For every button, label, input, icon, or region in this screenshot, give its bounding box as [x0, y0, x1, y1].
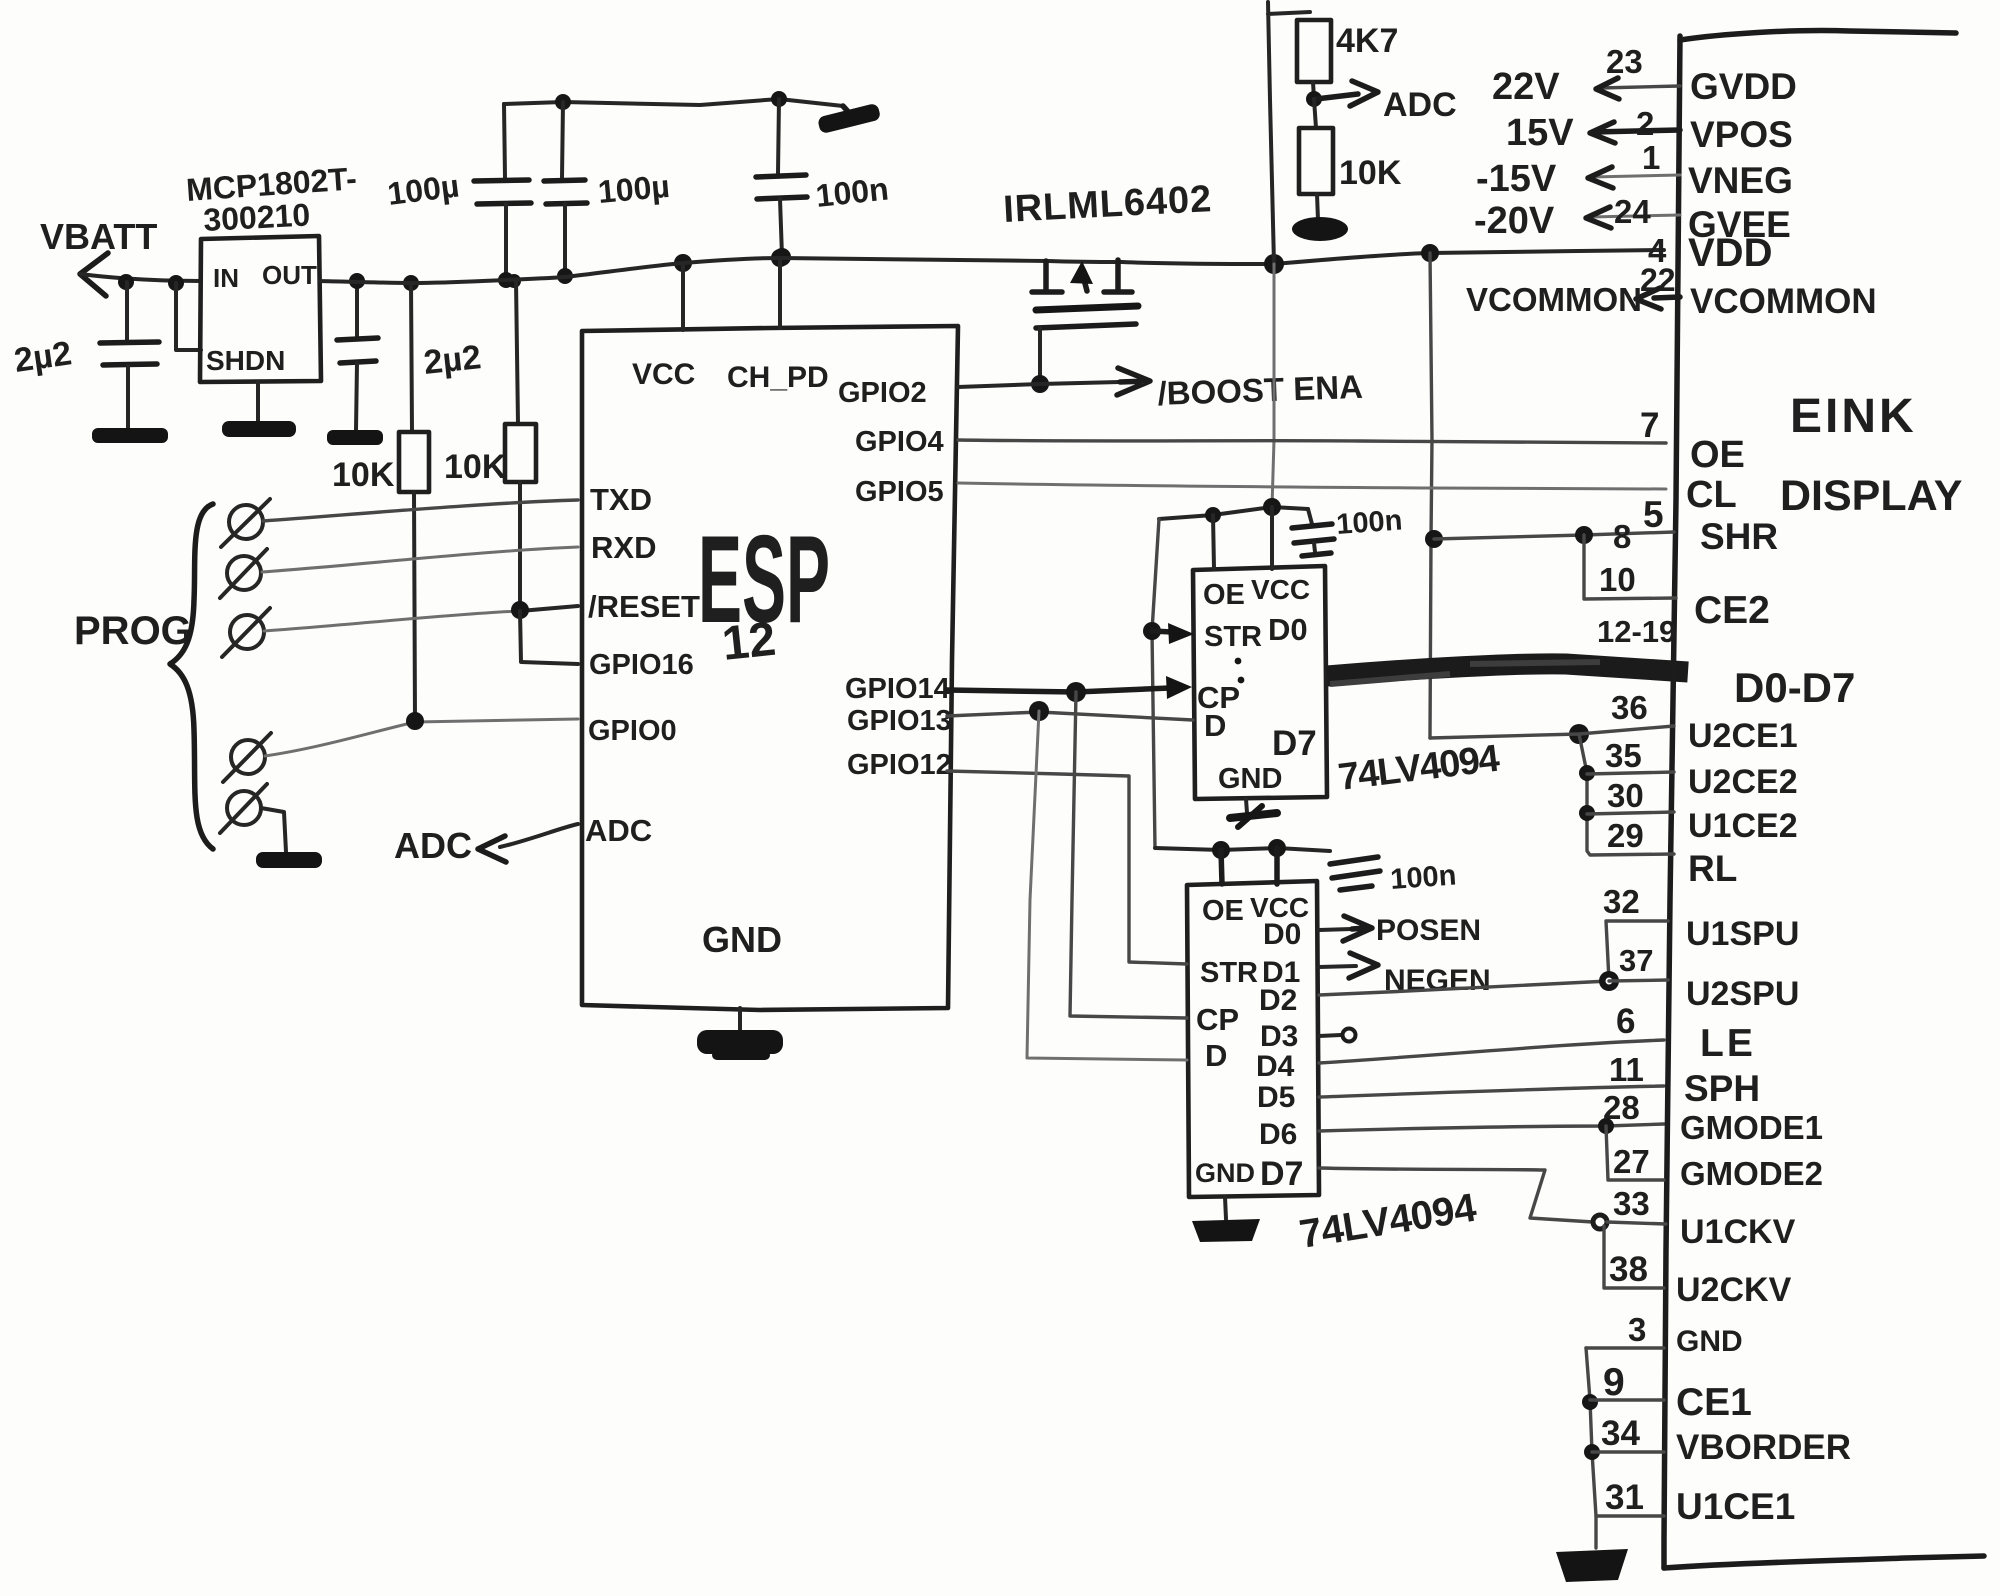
svg-text:2µ2: 2µ2	[12, 334, 74, 380]
svg-text:U2CE2: U2CE2	[1688, 763, 1798, 801]
wire VCC rail (regulator OUT to VDD pin)	[320, 250, 1664, 283]
svg-text:IN: IN	[213, 263, 239, 293]
wire D branch (U4)	[1027, 711, 1187, 1060]
svg-text:GPIO2: GPIO2	[838, 377, 927, 409]
svg-text:GPIO13: GPIO13	[847, 705, 952, 737]
svg-text:8: 8	[1613, 518, 1631, 555]
wire CP branch (U4)	[1070, 692, 1187, 1018]
connector J1 PROG brace	[170, 504, 213, 849]
svg-text:D0: D0	[1268, 612, 1308, 647]
svg-text:300210: 300210	[202, 196, 311, 238]
wire VBATT arrow to regulator IN	[80, 253, 200, 296]
wire D4 to LE	[1319, 1040, 1664, 1063]
svg-text:D7: D7	[1260, 1155, 1303, 1193]
svg-text:30: 30	[1607, 777, 1644, 814]
svg-text:VCOMMON: VCOMMON	[1466, 281, 1642, 318]
svg-text:OE: OE	[1203, 579, 1245, 611]
svg-text:D6: D6	[1259, 1118, 1297, 1151]
svg-text:/BOOST ENA: /BOOST ENA	[1157, 368, 1364, 412]
pin 38 U2CKV chain	[1604, 1226, 1792, 1309]
pin 28 GMODE1	[1598, 1089, 1823, 1146]
svg-text:GMODE2: GMODE2	[1680, 1155, 1823, 1192]
pin 34 VBORDER	[1584, 1414, 1851, 1467]
resistor R1 10K (GPIO0 pullup)	[332, 275, 429, 722]
svg-text:VCC: VCC	[1251, 574, 1310, 605]
capacitor C4 100u	[544, 94, 671, 284]
pad pin5 PROG GND	[220, 784, 267, 833]
svg-text:VCOMMON: VCOMMON	[1690, 282, 1877, 321]
svg-text:GND: GND	[702, 919, 782, 960]
wire D7 to U1CKV	[1319, 1168, 1593, 1222]
node junction C2	[349, 273, 365, 289]
svg-text:36: 36	[1611, 689, 1648, 726]
svg-text:100n: 100n	[1335, 504, 1403, 541]
svg-text:STR: STR	[1204, 621, 1262, 653]
svg-text:GVDD: GVDD	[1690, 66, 1797, 107]
ground (U4)	[1192, 1197, 1260, 1242]
capacitor C7 100n (U4)	[1330, 857, 1457, 896]
pad pin1 PROG TXD	[221, 499, 270, 547]
pin 37 U2SPU	[1599, 943, 1799, 1013]
wire RESET to GPIO16 jog	[520, 611, 578, 664]
svg-text:D7: D7	[1272, 724, 1317, 763]
wire VCC stub	[674, 254, 692, 330]
pin 4 VDD	[1648, 231, 1772, 275]
svg-text:U2CKV: U2CKV	[1676, 1271, 1792, 1309]
svg-text:OUT: OUT	[262, 260, 317, 290]
resistor R2 10K (reset pullup)	[444, 274, 536, 610]
wire CE chain vertical	[1579, 734, 1674, 855]
IC U4 74LV4094 box	[1187, 881, 1319, 1197]
svg-text:32: 32	[1603, 883, 1640, 920]
svg-text:100µ: 100µ	[596, 168, 671, 210]
svg-text:CH_PD: CH_PD	[727, 361, 829, 394]
svg-text:31: 31	[1605, 1478, 1644, 1517]
pin 6 LE	[1616, 1002, 1756, 1065]
svg-text:STR: STR	[1200, 957, 1258, 989]
svg-text:12-19: 12-19	[1597, 614, 1676, 649]
pin labels U3 right	[1235, 574, 1317, 763]
wire Q1 gate to GPIO2	[1038, 328, 1042, 384]
svg-text:VDD: VDD	[1688, 231, 1772, 275]
transistor Q1 gate plate	[1036, 324, 1136, 328]
svg-text:11: 11	[1609, 1051, 1644, 1088]
ground (C1)	[92, 428, 168, 443]
ground (U3)	[1230, 799, 1277, 827]
pin 23 GVDD with 22V arrow	[1492, 43, 1797, 108]
svg-text:VBORDER: VBORDER	[1676, 1428, 1851, 1467]
svg-text:2µ2: 2µ2	[422, 338, 483, 382]
wire D5 to SPH	[1319, 1086, 1664, 1097]
ground (regulator)	[222, 382, 296, 437]
svg-text:27: 27	[1613, 1143, 1650, 1180]
svg-text:10: 10	[1599, 561, 1636, 598]
svg-text:38: 38	[1609, 1250, 1648, 1289]
part name EINK DISPLAY	[1780, 390, 1962, 520]
svg-text:GMODE1: GMODE1	[1680, 1109, 1823, 1146]
svg-text:CE1: CE1	[1676, 1381, 1752, 1424]
transistor Q1 source stub	[1032, 261, 1062, 292]
svg-text:VCC: VCC	[632, 358, 695, 391]
svg-text:35: 35	[1605, 737, 1642, 774]
svg-text:D3: D3	[1260, 1020, 1298, 1053]
wire PROG GND pad to ground	[261, 808, 286, 852]
ground (C2)	[327, 430, 383, 445]
wire VDD branch to SHR/CE nets	[1421, 244, 1439, 738]
wire top bypass rail	[504, 99, 843, 106]
pin 2 VPOS with 15V arrow	[1506, 105, 1793, 155]
pin 9 CE1	[1582, 1361, 1752, 1424]
wire U3 VCC stub	[1270, 507, 1274, 569]
svg-text:VNEG: VNEG	[1688, 160, 1793, 201]
svg-text:28: 28	[1603, 1089, 1640, 1126]
pin 3 GND	[1586, 1311, 1743, 1358]
capacitor C3 100u	[385, 104, 531, 288]
svg-text:GPIO12: GPIO12	[847, 749, 952, 781]
transistor Q1 channel bar	[1036, 306, 1138, 310]
wire RXD net	[262, 547, 578, 572]
svg-text:D5: D5	[1257, 1081, 1295, 1114]
wire D2 to U2SPU	[1319, 981, 1609, 995]
svg-text:RL: RL	[1688, 848, 1737, 889]
pin 7 OE	[1640, 406, 1745, 476]
svg-text:6: 6	[1616, 1002, 1635, 1041]
svg-text:VPOS: VPOS	[1690, 114, 1793, 155]
bus D0-D7 (U3 to display)	[1327, 662, 1688, 684]
svg-text:POSEN: POSEN	[1376, 914, 1481, 947]
pad pin4 PROG GPIO0	[223, 733, 271, 782]
wire VDD branch down to shift registers VCC	[1272, 264, 1274, 507]
pin 35 U2CE2	[1579, 737, 1798, 801]
capacitor C1 2u2	[12, 282, 159, 428]
svg-text:100n: 100n	[814, 171, 890, 214]
svg-text:U1CE2: U1CE2	[1688, 807, 1798, 845]
wire U3 STR tie to VCC	[1143, 519, 1161, 848]
pin 32 U1SPU chain	[1603, 883, 1799, 981]
ground (divider)	[1292, 217, 1348, 241]
wire U3 OE stub	[1213, 515, 1214, 569]
svg-text:-15V: -15V	[1476, 158, 1557, 200]
svg-text:CP: CP	[1196, 1002, 1239, 1037]
svg-text:EINK: EINK	[1790, 390, 1917, 443]
wire GPIO13 to D (U3)	[947, 701, 1193, 721]
part name ESP 12	[698, 511, 830, 671]
svg-text:RXD: RXD	[591, 530, 656, 565]
resistor R4 10K (divider low side)	[1299, 99, 1402, 220]
svg-text:7: 7	[1640, 406, 1659, 445]
svg-text:ADC: ADC	[394, 825, 472, 866]
pin 10 CE2 chain	[1584, 535, 1770, 632]
svg-text:ADC: ADC	[1383, 86, 1457, 124]
svg-text:34: 34	[1601, 1414, 1640, 1453]
pin 11 SPH	[1609, 1051, 1760, 1109]
svg-text:GPIO16: GPIO16	[589, 649, 694, 681]
pin 30 U1CE2	[1579, 777, 1798, 845]
wire U4 VCC stub	[1274, 848, 1280, 884]
svg-text:SHDN: SHDN	[206, 345, 285, 376]
svg-text:-20V: -20V	[1474, 200, 1555, 242]
svg-text:SPH: SPH	[1684, 1068, 1760, 1109]
wire SHDN	[176, 283, 201, 350]
IC U3 74LV4094 box	[1193, 566, 1327, 799]
svg-text:CL: CL	[1686, 474, 1737, 516]
wire GPIO5 to CL pin	[958, 483, 1666, 489]
svg-text:10K: 10K	[444, 448, 507, 486]
svg-text:4K7: 4K7	[1336, 22, 1398, 60]
pin 29 RL	[1607, 817, 1737, 889]
node junction VBATT/C1	[118, 274, 134, 290]
ground (PROG)	[256, 852, 322, 868]
svg-text:SHR: SHR	[1700, 516, 1778, 557]
pin labels U4 left	[1195, 895, 1258, 1188]
wire GPIO4 to OE pin 7	[958, 440, 1666, 443]
pin 8/5 SHR	[1425, 494, 1778, 557]
svg-text:ADC: ADC	[585, 813, 652, 848]
svg-text:1: 1	[1642, 139, 1660, 176]
pad pin3 PROG RESET	[222, 608, 270, 657]
svg-text:U1CKV: U1CKV	[1680, 1213, 1796, 1251]
resistor R3 4K7	[1297, 20, 1398, 99]
wire ADC arrow out	[394, 824, 578, 866]
wire GPIO12 to STR (U4)	[947, 771, 1187, 964]
wire U4 OE stub	[1221, 850, 1222, 884]
svg-text:OE: OE	[1690, 434, 1745, 476]
wire TXD net	[263, 500, 578, 521]
wire ADC tap arrow	[1306, 81, 1457, 124]
pin 33 U1CKV	[1593, 1185, 1796, 1251]
svg-text:PROG: PROG	[74, 609, 192, 653]
pad pin2 PROG RXD	[220, 549, 267, 598]
svg-text:10K: 10K	[1339, 154, 1402, 192]
svg-text:TXD: TXD	[590, 482, 652, 517]
wire D6 to GMODE1	[1319, 1124, 1664, 1131]
wire divider feed (VDD rail up)	[1264, 2, 1310, 274]
wire RESET net	[264, 601, 578, 631]
svg-text:GPIO5: GPIO5	[855, 476, 944, 508]
svg-text:GPIO14: GPIO14	[845, 673, 950, 705]
wire U4 VCC top rail	[1155, 839, 1330, 859]
wire U3 STR pin	[1152, 623, 1194, 644]
net label VBATT	[40, 216, 157, 257]
wire D1 to NEGEN	[1319, 953, 1491, 997]
pin 1 VNEG with -15V arrow	[1476, 139, 1793, 201]
svg-text:GND: GND	[1195, 1158, 1255, 1188]
svg-text:VBATT: VBATT	[40, 216, 157, 257]
pin 22 VCOMMON arrow	[1466, 262, 1877, 321]
svg-text:3: 3	[1628, 1311, 1646, 1348]
svg-text:D0-D7: D0-D7	[1734, 664, 1855, 711]
pin 12-19 D0-D7 bus label	[1597, 614, 1855, 711]
ground (ESP GND)	[697, 1008, 783, 1060]
svg-text:GND: GND	[1676, 1325, 1743, 1358]
svg-text:LE: LE	[1700, 1022, 1756, 1065]
svg-text:U2CE1: U2CE1	[1688, 717, 1798, 755]
pin labels U4 right	[1250, 892, 1309, 1193]
svg-text:22: 22	[1640, 262, 1676, 298]
node junction SHDN tap	[168, 275, 184, 291]
svg-text:D: D	[1205, 1038, 1227, 1073]
wire GPIO14 to CP (U3)	[947, 676, 1192, 702]
svg-text:DISPLAY: DISPLAY	[1780, 472, 1962, 520]
ground (display)	[1556, 1549, 1628, 1582]
svg-text:10K: 10K	[332, 456, 395, 494]
module U2 ESP-12 box	[582, 326, 958, 1010]
svg-text:33: 33	[1613, 1185, 1650, 1222]
pin labels U3 left	[1197, 579, 1282, 795]
wire GPIO2 /BOOSTENA net	[958, 368, 1150, 395]
svg-text:24: 24	[1614, 193, 1651, 230]
ground (top right of bypass rail)	[817, 103, 881, 134]
svg-text:23: 23	[1606, 43, 1643, 80]
svg-text:12: 12	[720, 613, 779, 671]
svg-text:2: 2	[1636, 105, 1654, 142]
svg-text:37: 37	[1619, 943, 1653, 978]
svg-text:U1CE1: U1CE1	[1676, 1486, 1795, 1527]
svg-text:15V: 15V	[1506, 112, 1574, 154]
wire U3 VCC top rail	[1159, 498, 1308, 523]
svg-text:GPIO4: GPIO4	[855, 426, 944, 458]
capacitor C5 100n	[756, 91, 890, 266]
capacitor C2 2u2 (regulator output)	[337, 281, 483, 430]
svg-text:100n: 100n	[1389, 859, 1457, 896]
connector J2 EINK display edge	[1664, 31, 1984, 1568]
svg-text:D0: D0	[1263, 918, 1301, 951]
svg-text:D2: D2	[1259, 984, 1297, 1017]
svg-text:U1SPU: U1SPU	[1686, 915, 1799, 953]
regulator U1 MCP1802T-300210	[185, 160, 358, 382]
wire D3 no-connect	[1319, 1029, 1356, 1042]
pin 24 GVEE with -20V arrow	[1474, 193, 1791, 245]
pin 31 U1CE1	[1596, 1478, 1795, 1527]
svg-text:29: 29	[1607, 817, 1644, 854]
svg-text:D: D	[1204, 708, 1226, 743]
pin 36 U2CE1	[1430, 689, 1798, 755]
svg-text:CE2: CE2	[1694, 589, 1770, 632]
wire D0 to POSEN	[1319, 914, 1481, 947]
svg-text:9: 9	[1603, 1361, 1625, 1404]
capacitor C6 100n (U3)	[1292, 504, 1403, 556]
wire GPIO0 net	[265, 712, 578, 756]
transistor Q1 body arrow	[1070, 261, 1093, 291]
svg-text:U2SPU: U2SPU	[1686, 975, 1799, 1013]
svg-text:OE: OE	[1202, 895, 1244, 927]
wire CH_PD stub	[771, 249, 789, 328]
svg-text:/RESET: /RESET	[588, 589, 700, 624]
svg-text:5: 5	[1643, 494, 1664, 535]
svg-text:GND: GND	[1218, 763, 1282, 795]
pin 27 GMODE2 chain	[1606, 1126, 1823, 1192]
transistor Q1 drain stub	[1104, 260, 1132, 292]
svg-text:GPIO0: GPIO0	[588, 715, 677, 747]
wire GND chain vertical	[1586, 1348, 1596, 1548]
svg-text:D4: D4	[1256, 1050, 1295, 1083]
svg-text:22V: 22V	[1492, 66, 1560, 108]
